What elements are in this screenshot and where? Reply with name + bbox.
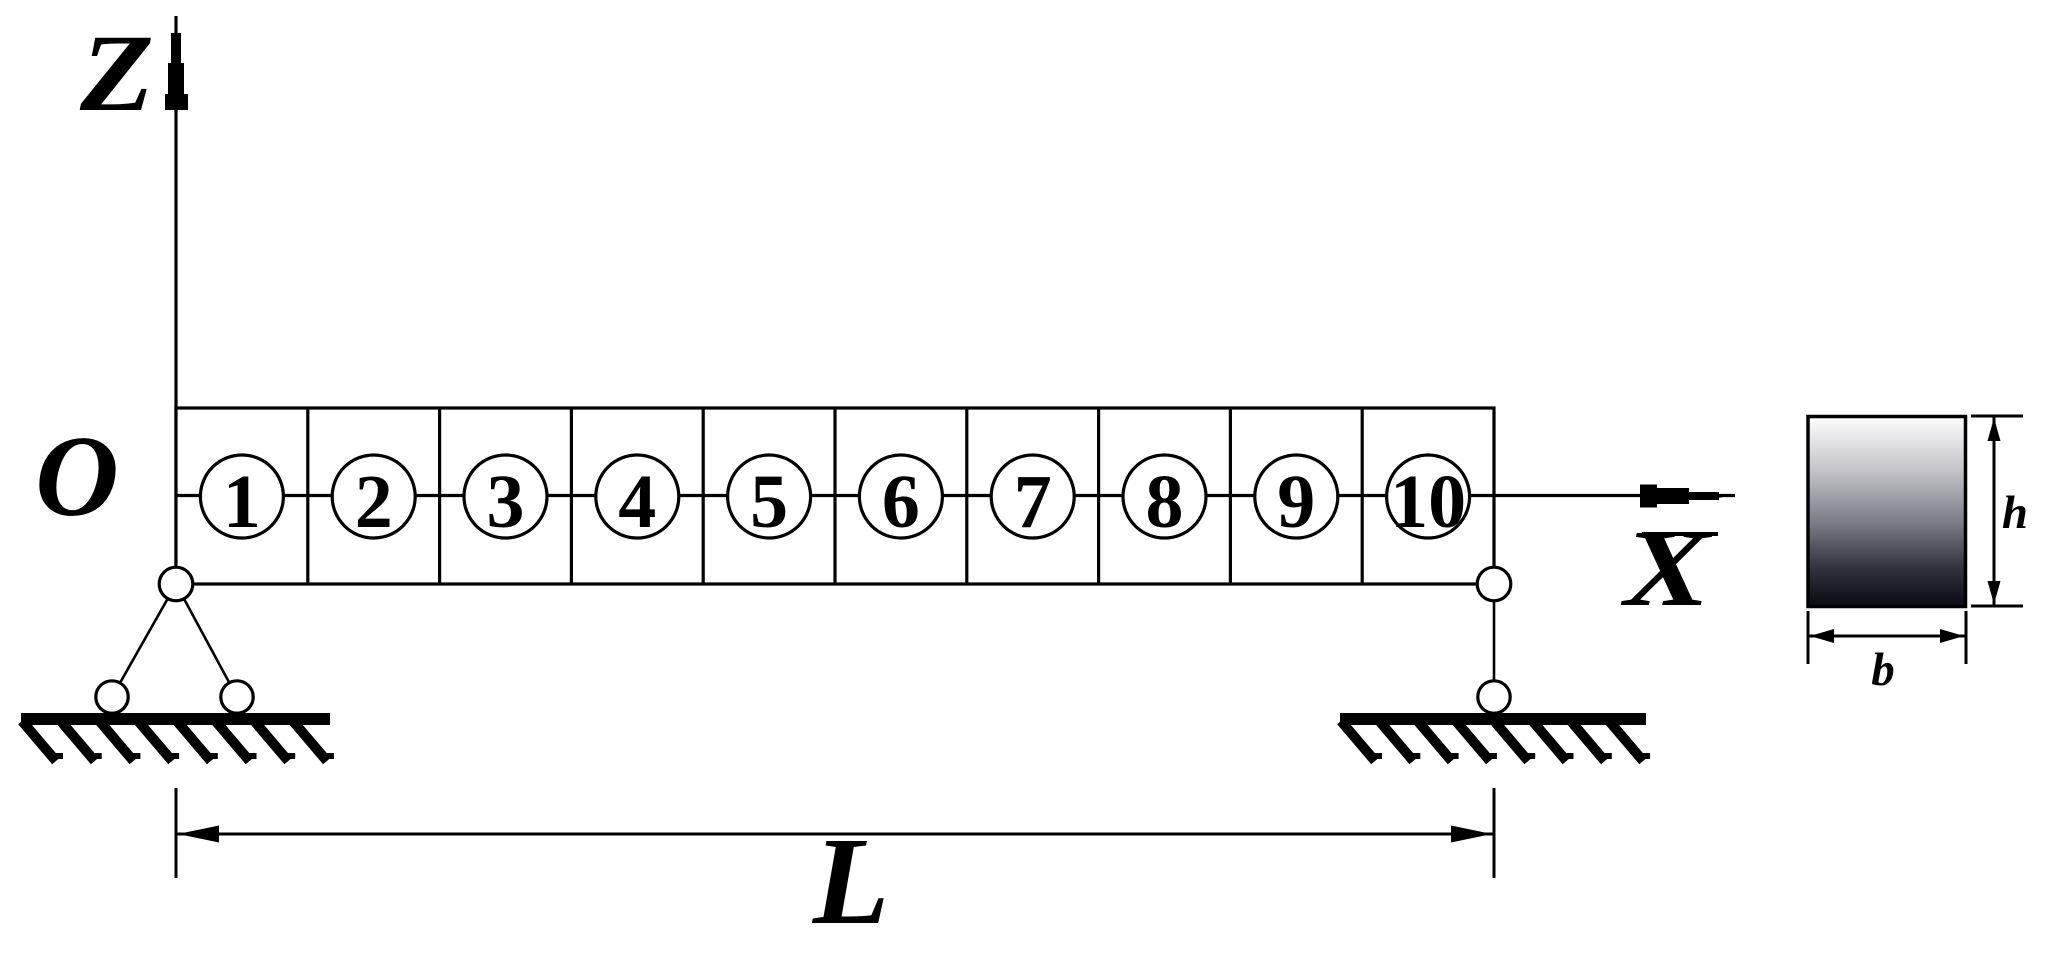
element 5 (node circle with number) xyxy=(728,455,811,544)
svg-text:X: X xyxy=(1620,507,1713,629)
svg-text:10: 10 xyxy=(1390,460,1466,544)
left ground bar xyxy=(21,713,330,725)
element divider line 2 xyxy=(438,408,441,584)
dimension b right arrowhead xyxy=(1940,629,1964,643)
element divider line 6 xyxy=(965,408,968,584)
svg-text:O: O xyxy=(35,413,119,541)
left support right roller circle xyxy=(221,681,253,713)
cross-section rectangle xyxy=(1808,417,1966,607)
X axis / element centerline xyxy=(176,494,1735,497)
element divider line 3 xyxy=(570,408,573,584)
svg-text:Z: Z xyxy=(79,12,154,134)
element 6 (node circle with number) xyxy=(859,455,942,544)
svg-text:2: 2 xyxy=(355,460,393,544)
dimension L left extension line xyxy=(175,788,178,878)
Z axis line xyxy=(174,16,177,584)
right ground bar xyxy=(1340,713,1646,725)
svg-text:b: b xyxy=(1871,644,1895,696)
dimension h top extension line xyxy=(1971,415,2023,418)
element divider line 7 xyxy=(1097,408,1100,584)
left support left leg xyxy=(112,584,176,697)
beam outline rectangle xyxy=(176,408,1494,584)
right support node circle xyxy=(1477,567,1511,601)
dimension L right arrowhead xyxy=(1451,826,1492,843)
element divider line 4 xyxy=(702,408,705,584)
element 2 (node circle with number) xyxy=(332,455,415,544)
element 9 (node circle with number) xyxy=(1255,455,1338,544)
dimension L right extension line xyxy=(1493,788,1496,878)
dimension L line xyxy=(176,833,1494,836)
element 1 (node circle with number) xyxy=(200,455,283,544)
svg-text:L: L xyxy=(812,813,889,951)
right support roller circle xyxy=(1478,681,1510,713)
element divider line 5 xyxy=(833,408,836,584)
element 10 (node circle with number) xyxy=(1387,455,1470,544)
element 4 (node circle with number) xyxy=(596,455,679,544)
left ground hatching xyxy=(22,721,334,761)
element 8 (node circle with number) xyxy=(1123,455,1206,544)
X axis arrowhead xyxy=(1640,485,1731,508)
svg-text:1: 1 xyxy=(223,460,261,544)
element divider line 1 xyxy=(306,408,309,584)
right ground hatching xyxy=(1341,721,1650,761)
dimension b left arrowhead xyxy=(1810,629,1834,643)
dimension b right extension line xyxy=(1965,611,1968,664)
left support left roller circle xyxy=(96,681,128,713)
dimension h top arrowhead xyxy=(1988,418,2001,441)
element 7 (node circle with number) xyxy=(991,455,1074,544)
overbar of X xyxy=(1642,532,1718,536)
svg-text:3: 3 xyxy=(487,460,525,544)
element divider line 8 xyxy=(1229,408,1232,584)
left support pin node circle xyxy=(159,567,193,601)
svg-text:7: 7 xyxy=(1014,460,1052,544)
dimension h bottom arrowhead xyxy=(1988,581,2001,604)
svg-text:9: 9 xyxy=(1277,460,1315,544)
svg-text:8: 8 xyxy=(1146,460,1184,544)
svg-text:4: 4 xyxy=(618,460,656,544)
right support link line xyxy=(1493,584,1496,697)
dimension L left arrowhead xyxy=(178,826,219,843)
svg-text:5: 5 xyxy=(750,460,788,544)
element divider line 9 xyxy=(1361,408,1364,584)
element 3 (node circle with number) xyxy=(464,455,547,544)
left support right leg xyxy=(176,584,237,697)
dimension h bottom extension line xyxy=(1971,605,2023,608)
dimension b line xyxy=(1809,635,1965,638)
dimension b left extension line xyxy=(1807,611,1810,664)
dimension h line xyxy=(1993,417,1996,605)
svg-text:h: h xyxy=(2002,487,2028,539)
Z axis arrowhead xyxy=(165,33,188,110)
svg-text:6: 6 xyxy=(882,460,920,544)
